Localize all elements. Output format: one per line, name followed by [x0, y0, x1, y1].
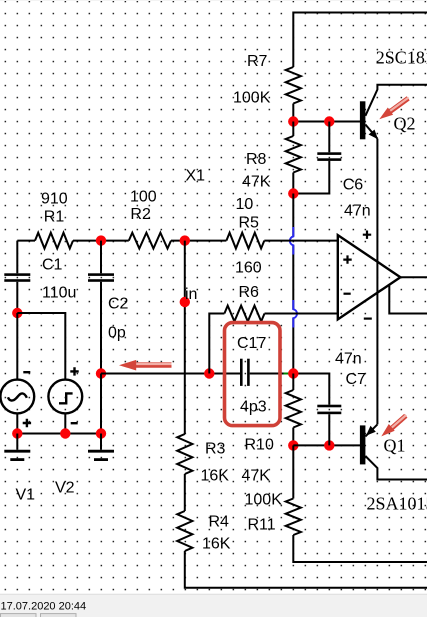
node in dot — [180, 297, 190, 307]
resistor R7 — [286, 67, 301, 104]
wire bottom left rail — [17, 433, 101, 435]
capacitor C7 — [317, 405, 341, 408]
wire V1 bottom — [16, 413, 18, 433]
junction C7 bottom — [324, 440, 334, 450]
svg-text:Q2: Q2 — [394, 114, 416, 134]
svg-text:100K: 100K — [233, 90, 271, 107]
V1 plus mark — [23, 419, 31, 427]
annotation arrow at Q1 — [391, 416, 406, 430]
wire V2 bottom — [64, 413, 66, 433]
resistor R4 — [177, 511, 192, 551]
svg-text:V2: V2 — [55, 480, 75, 497]
wire R1-R2 — [73, 240, 129, 242]
svg-text:17.07.2020 20:44: 17.07.2020 20:44 — [1, 601, 87, 613]
V2 minus mark — [71, 422, 78, 424]
svg-text:V1: V1 — [16, 487, 36, 504]
svg-text:47n: 47n — [335, 351, 362, 368]
transistor Q2 — [360, 101, 366, 139]
wire Q2 base rail — [293, 121, 360, 123]
junction V2 bottom — [60, 428, 70, 438]
status bar buttons — [1, 614, 37, 617]
svg-text:2SA1015: 2SA1015 — [367, 494, 427, 514]
resistor R5 — [226, 233, 264, 249]
junction C1/V1/V2 stub — [12, 308, 22, 318]
wire hop over noninverting input (blue) — [290, 227, 293, 255]
resistor R1 — [35, 233, 73, 249]
svg-text:C17: C17 — [237, 335, 266, 352]
svg-text:R8: R8 — [246, 151, 267, 168]
junction R10/R11/base — [288, 440, 298, 450]
wire R5 to op-amp + input — [264, 240, 338, 242]
junction R1/R2/C2 — [96, 235, 106, 245]
voltage source V2 — [48, 380, 82, 414]
svg-text:47K: 47K — [242, 468, 271, 485]
wire Q1 base rail — [293, 444, 360, 446]
svg-text:47n: 47n — [344, 203, 371, 220]
junction C2/wire — [96, 368, 106, 378]
transistor Q1 — [360, 425, 366, 464]
net highlight green segment — [284, 373, 293, 375]
junction V1 bottom — [12, 428, 22, 438]
junction C2 bottom — [96, 428, 106, 438]
junction R6 drop — [204, 368, 214, 378]
junction C17/R10/C7 — [288, 368, 298, 378]
node in: vertical wire to R3/R4 — [184, 241, 186, 434]
svg-text:C1: C1 — [42, 257, 63, 274]
wire R7 bottom to node — [292, 104, 294, 123]
svg-text:R5: R5 — [239, 215, 260, 232]
ground right — [100, 434, 102, 450]
capacitor C17 — [240, 359, 243, 386]
V2 plus mark — [70, 367, 78, 375]
svg-text:47K: 47K — [242, 174, 271, 191]
capacitor C1 — [16, 241, 18, 274]
resistor R10 — [292, 374, 294, 391]
wire R2 to in node — [171, 240, 226, 242]
op-amp - input mark — [344, 293, 351, 295]
wire output jog to lower right — [389, 285, 427, 314]
svg-text:R11: R11 — [248, 517, 276, 534]
svg-text:160: 160 — [235, 260, 262, 277]
svg-text:R6: R6 — [239, 284, 260, 301]
wire op-amp output — [400, 276, 427, 278]
svg-text:0p: 0p — [108, 325, 126, 342]
svg-text:R4: R4 — [209, 514, 230, 531]
junction R2/R5/in — [180, 235, 190, 245]
wire top rail to R7 — [293, 13, 427, 68]
svg-text:2SC1815: 2SC1815 — [376, 48, 427, 68]
capacitor C2 — [100, 241, 102, 274]
svg-text:R3: R3 — [205, 441, 226, 458]
svg-text:R7: R7 — [247, 53, 268, 70]
wire bottom rail — [185, 551, 427, 588]
junction R8 bottom — [288, 188, 298, 198]
highlight box around C17 — [225, 323, 281, 426]
voltage source V1 — [0, 380, 34, 414]
wire C17 left — [101, 373, 240, 375]
status bar — [0, 594, 427, 617]
wire R11 bottom elbow — [293, 535, 427, 562]
resistor R8 — [292, 122, 294, 137]
annotation arrow at C17 — [133, 362, 172, 367]
svg-text:16K: 16K — [201, 468, 230, 485]
annotation arrow at Q2 — [390, 98, 409, 112]
junction R7/R8/base — [288, 116, 298, 126]
V1 minus mark — [23, 371, 30, 373]
ground left — [16, 434, 18, 450]
wire C17 right — [250, 374, 330, 405]
wire R6 to op-amp - input — [265, 313, 338, 315]
svg-text:100K: 100K — [245, 492, 283, 509]
op-amp U1 triangle — [338, 235, 401, 319]
svg-text:C6: C6 — [343, 177, 364, 194]
svg-text:R1: R1 — [44, 209, 65, 226]
op-amp +supply mark — [363, 231, 371, 239]
svg-text:10: 10 — [236, 196, 254, 213]
resistor R11 — [292, 445, 294, 498]
wire stub to V2 — [17, 313, 65, 379]
resistor R2 — [129, 233, 171, 249]
svg-text:C7: C7 — [346, 371, 367, 388]
svg-text:C2: C2 — [108, 296, 129, 313]
svg-text:R10: R10 — [245, 437, 274, 454]
capacitor C6 — [328, 122, 330, 153]
svg-text:Q1: Q1 — [384, 436, 406, 456]
svg-text:in: in — [185, 286, 197, 303]
svg-text:16K: 16K — [202, 536, 231, 553]
resistor R6 branch — [209, 314, 224, 374]
wire hop over inverting input (blue) — [293, 300, 297, 328]
svg-text:R2: R2 — [130, 206, 151, 223]
Q1 emitter arrow — [366, 426, 376, 436]
svg-text:100: 100 — [130, 189, 157, 206]
op-amp + input mark — [343, 255, 351, 263]
svg-text:X1: X1 — [186, 168, 206, 185]
svg-text:910: 910 — [41, 191, 68, 208]
op-amp -supply mark — [364, 318, 372, 320]
vertical net R8->R10 with hops — [292, 194, 294, 237]
Q2 emitter arrow — [369, 130, 378, 140]
wire R1 left drop — [17, 240, 35, 242]
wire C1 to V1 — [16, 313, 18, 379]
junction C6 top — [324, 116, 334, 126]
resistor R3 — [177, 434, 192, 474]
svg-text:4p3: 4p3 — [240, 399, 267, 416]
supply rail through op-amp — [376, 139, 378, 425]
svg-text:110u: 110u — [42, 285, 76, 302]
